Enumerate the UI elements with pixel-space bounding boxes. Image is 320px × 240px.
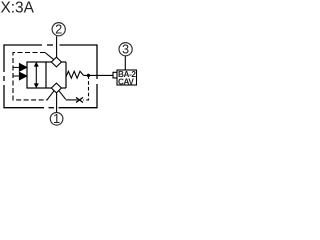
node 3 port circle: [119, 43, 132, 56]
svg-text:1: 1: [53, 111, 60, 126]
wire valve bottom poppet to port 1: [56, 93, 58, 112]
wire spring junction to port 3: [84, 74, 113, 76]
svg-text:X:3A: X:3A: [1, 0, 35, 16]
junction dot spring chamber: [87, 74, 90, 77]
valve V1 right position box: [46, 62, 66, 88]
cavity plug body BA-2: [117, 70, 137, 85]
manifold block outline left edge: [3, 44, 5, 108]
node 2 port circle: [52, 23, 65, 36]
spring S1: [66, 71, 84, 78]
pilot stub wire upper: [13, 66, 20, 68]
manifold block outline bottom edge: [4, 107, 97, 109]
pilot actuator triangle lower: [19, 72, 26, 80]
svg-text:2: 2: [55, 21, 62, 36]
manifold block outline top edge: [4, 44, 97, 46]
bottom poppet seat diamond: [51, 83, 61, 93]
svg-text:3: 3: [122, 41, 129, 56]
pilot line right vertical to spring chamber: [83, 75, 88, 100]
valve V1 left position box: [27, 62, 46, 88]
pilot line left run (top horizontal, left vertical, bottom horizontal): [13, 53, 48, 100]
drain branch diagonal from bottom poppet right: [59, 91, 66, 99]
pilot stub wire lower: [13, 75, 20, 77]
manifold block outline right edge: [96, 44, 98, 108]
wire port 3 to cavity plug: [124, 56, 126, 70]
orifice X symbol: [76, 97, 83, 102]
drain wire to orifice: [66, 99, 78, 101]
svg-text:CAV: CAV: [118, 78, 134, 87]
pilot branch diagonal from bottom poppet left: [47, 91, 54, 100]
valve V1 flow path double arrow: [35, 64, 37, 86]
pilot actuator triangle upper: [19, 64, 26, 72]
node 1 port circle: [50, 113, 63, 126]
cavity plug tab: [113, 72, 117, 78]
top poppet seat diamond: [51, 57, 61, 67]
pilot branch diagonal to top poppet: [45, 53, 54, 60]
wire port 2 to valve top poppet: [56, 36, 58, 57]
